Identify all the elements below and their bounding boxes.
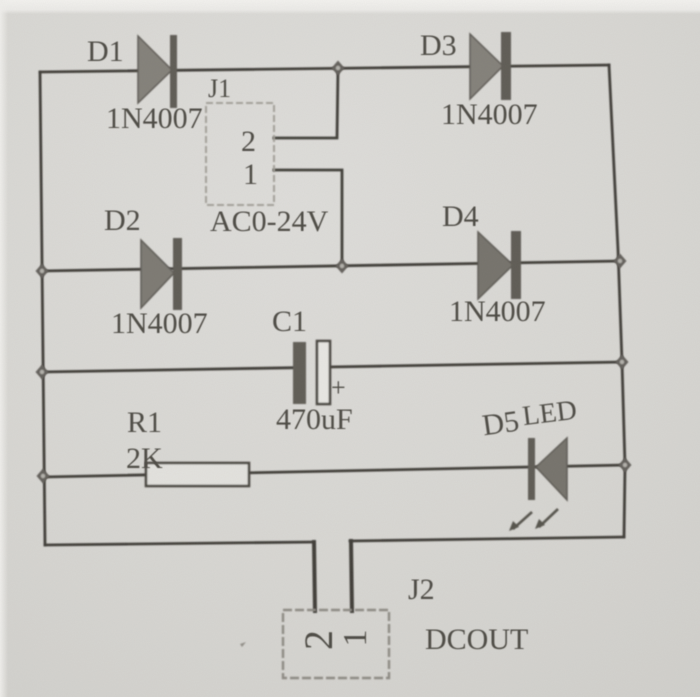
diode D3 — [470, 32, 511, 100]
wire: J1 pin 2 to top net — [274, 68, 338, 138]
wire: bottom net right segment — [350, 537, 624, 541]
wire: fourth net (R1/LED row) — [44, 465, 625, 477]
connector J2 body — [283, 610, 389, 678]
resistor R1 — [146, 463, 249, 486]
capacitor C1 — [293, 341, 330, 404]
connector J1 body — [206, 103, 274, 205]
LED D5 — [509, 438, 567, 531]
wire: third net right of C1 — [329, 362, 622, 367]
wire: second net (D2/D4 row) — [41, 261, 620, 271]
wire: J2 pin 1 drop — [351, 541, 352, 611]
junction: fourth net right rail — [619, 458, 632, 473]
wire: third net (C1 row) — [42, 368, 294, 372]
wire: top net, left corner to right corner — [40, 65, 609, 72]
diode D1 — [138, 35, 177, 108]
junction: third net left rail — [36, 365, 49, 380]
wire: J1 pin 1 to second net — [274, 170, 342, 266]
wire: bottom net left segment — [45, 542, 314, 545]
junction: fourth net left rail — [37, 469, 50, 484]
wire: left vertical rail — [40, 72, 45, 545]
wire: right vertical rail — [609, 65, 625, 537]
wire: J2 pin 2 drop — [314, 542, 315, 611]
junction: third net right rail — [616, 355, 629, 370]
diode D4 — [478, 231, 521, 299]
junction: second net / J1 pin1 — [336, 259, 349, 274]
diode D2 — [141, 238, 182, 310]
junction: second net left rail — [36, 264, 49, 279]
junction: second net right rail — [614, 254, 627, 269]
speck artifact — [240, 642, 246, 647]
junction: top net / J1 pin2 — [332, 61, 345, 76]
